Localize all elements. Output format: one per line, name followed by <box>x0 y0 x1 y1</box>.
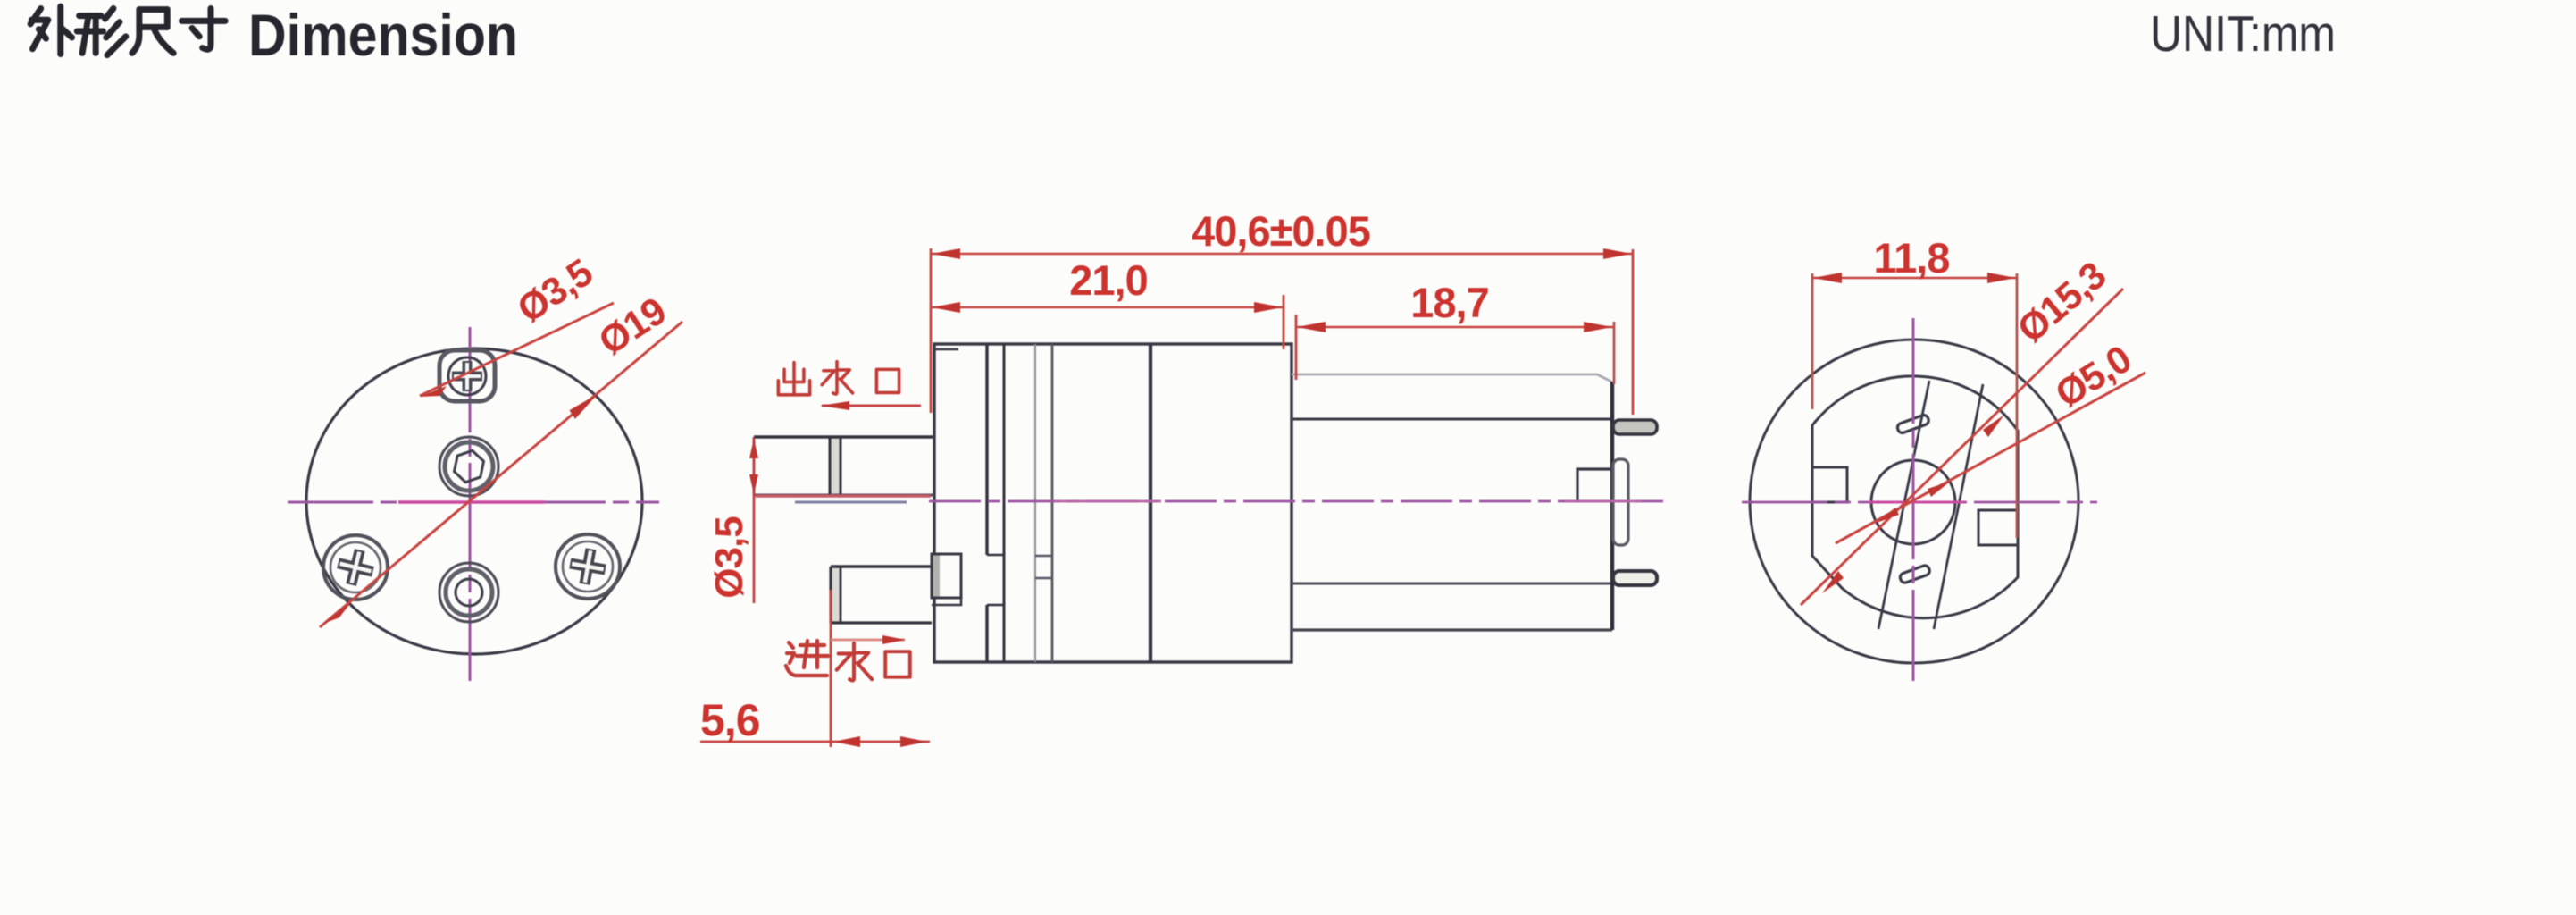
rear view center pink highlight <box>1869 501 1965 504</box>
outlet port blue centerline segment <box>795 501 907 504</box>
terminal pin top <box>1613 420 1657 434</box>
motor top line <box>1292 418 1612 421</box>
internal wall V3 <box>1034 344 1036 662</box>
nut N2 lower middle <box>439 563 498 622</box>
rear view motor can with flats <box>1812 376 2018 618</box>
front view center magenta highlight <box>398 500 545 503</box>
rear view right notch <box>1978 510 2018 545</box>
rear view left notch <box>1812 467 1847 502</box>
rear view outer circle <box>1750 340 2078 663</box>
inlet tube bottom <box>831 567 932 623</box>
svg-text:11,8: 11,8 <box>1874 234 1950 281</box>
rear view magnet gap line 1 <box>1878 381 1929 629</box>
centerline pink overlay B <box>1565 500 1642 503</box>
char 外 <box>30 6 71 54</box>
dim 40.6 extension left <box>930 248 933 413</box>
rear view terminal slot bottom <box>1899 565 1931 584</box>
rear view vertical centerline <box>1912 318 1915 681</box>
title: 外形尺寸 Dimension <box>30 6 225 55</box>
leader line Ø3,5 screw <box>420 303 614 396</box>
motor end cap vertical <box>1610 382 1614 630</box>
svg-text:40,6±0.05: 40,6±0.05 <box>1192 207 1370 255</box>
centerline pink overlay A <box>1054 500 1161 503</box>
internal wall jogs V1-V2 <box>987 555 1004 605</box>
internal wall V2 <box>1003 344 1006 662</box>
svg-text:5,6: 5,6 <box>700 695 760 745</box>
svg-text:Dimension: Dimension <box>248 2 518 68</box>
side view pump head body <box>934 344 1292 662</box>
dim 18.7 extension left <box>1295 315 1298 380</box>
terminal pin bottom <box>1613 571 1657 585</box>
outlet leader underline with arrow <box>822 405 921 407</box>
front view vertical centerline <box>469 327 472 681</box>
char 形 <box>77 8 126 55</box>
dim 40.6 extension right <box>1632 249 1635 415</box>
leader Ø15.3 <box>1801 289 2123 605</box>
dim line 21.0 <box>931 306 1284 309</box>
svg-text:Ø3,5: Ø3,5 <box>707 516 751 599</box>
internal wall V5 chamber divider <box>1149 344 1152 662</box>
front view: pump face circle Ø19 <box>306 348 642 654</box>
motor outer bottom line <box>1292 628 1612 631</box>
nut N1 upper middle <box>439 437 498 496</box>
bearing boss <box>1613 459 1628 545</box>
dim line 18.7 <box>1296 326 1613 329</box>
arrowhead Ø3,5 <box>420 386 447 397</box>
internal wall V1 <box>985 344 988 662</box>
dim Ø3.5 port vertical line <box>753 438 756 603</box>
main axis centerline <box>929 500 1663 503</box>
leader Ø5.0 <box>1836 373 2145 543</box>
front view horizontal centerline <box>288 501 659 504</box>
dim 11.8 extension left <box>1811 273 1814 409</box>
rear view terminal slot top <box>1896 414 1930 434</box>
dim 18.7 extension right overlay <box>1613 322 1616 384</box>
motor bottom line <box>1292 583 1612 585</box>
rear view shaft boss circle <box>1871 460 1955 544</box>
arrowhead Ø19 lower <box>322 601 350 625</box>
inlet boss on head <box>932 554 961 605</box>
svg-text:UNIT:mm: UNIT:mm <box>2150 5 2336 63</box>
screw S2 bottom-left (phillips) <box>323 535 388 600</box>
dim 11.8 extension right <box>2016 273 2019 538</box>
char 尺 <box>132 10 173 54</box>
leader line Ø19 diagonal <box>320 322 682 627</box>
outlet tube top <box>754 437 934 495</box>
label 出水口 outlet <box>778 362 899 395</box>
arrowhead Ø19 upper <box>569 393 599 419</box>
dim line 40.6 <box>931 253 1633 256</box>
pump head top-left step <box>934 348 958 350</box>
dim line 11.8 <box>1812 277 2017 280</box>
rear view horizontal centerline <box>1742 501 2097 504</box>
rear view magnet gap line 2 <box>1934 384 1983 629</box>
motor outer top line <box>1292 374 1611 382</box>
label 进水口 inlet <box>786 641 910 680</box>
screw S3 bottom-right (phillips) <box>556 534 620 599</box>
svg-text:21,0: 21,0 <box>1069 256 1147 304</box>
brush bracket notch <box>1577 469 1613 501</box>
internal wall jogs V3-V4 <box>1035 556 1052 578</box>
outlet port red centerline overlay <box>756 494 931 497</box>
inlet leader overline with arrow <box>831 639 905 642</box>
internal wall V4 <box>1051 344 1054 662</box>
dim 21.0 extension right <box>1283 295 1285 349</box>
svg-text:18,7: 18,7 <box>1410 279 1488 326</box>
char 寸 <box>181 8 225 49</box>
dim line 5.6 <box>700 741 930 743</box>
dim 5.6 extension <box>830 590 832 747</box>
screw S1 top (phillips in square pad) <box>439 350 495 401</box>
